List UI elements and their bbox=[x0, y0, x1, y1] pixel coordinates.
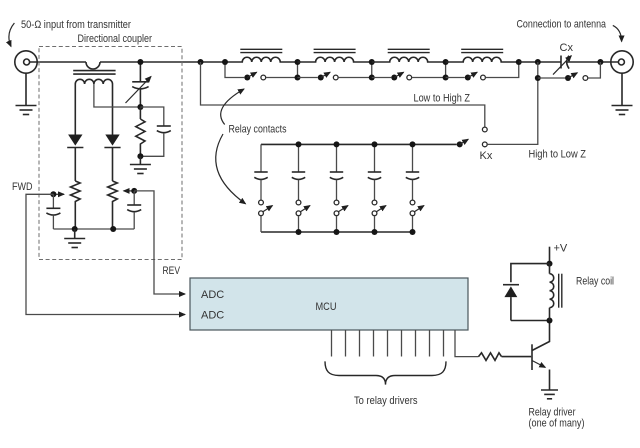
ground Q1 bbox=[541, 390, 558, 399]
capacitor Cx arrow bbox=[553, 56, 571, 75]
arrow to relay contact K1 bbox=[221, 89, 244, 125]
capacitor C5 bbox=[406, 144, 419, 200]
svg-text:+V: +V bbox=[554, 243, 568, 255]
potentiometer REV bbox=[108, 181, 118, 229]
svg-text:Cx: Cx bbox=[560, 42, 574, 54]
node L3-L4 bbox=[443, 59, 449, 65]
node Cx bypass top bbox=[535, 59, 541, 65]
svg-text:Low to High Z: Low to High Z bbox=[414, 93, 471, 105]
node C5 bottom bbox=[410, 229, 416, 235]
transistor Q1 bbox=[532, 321, 550, 391]
wire diode to coil bottom bbox=[511, 320, 550, 322]
inductor L3 bbox=[372, 57, 446, 62]
node L1-L2 bbox=[222, 59, 228, 65]
relay contact Cx bypass bbox=[538, 62, 601, 81]
node bus left bbox=[72, 226, 78, 232]
svg-text:(one of many): (one of many) bbox=[529, 418, 585, 430]
relay contact K6 bbox=[296, 200, 310, 232]
node C2 bottom bbox=[296, 229, 302, 235]
node C3 top bbox=[334, 141, 340, 147]
inductor L4 bbox=[446, 57, 519, 62]
CBANK bbox=[254, 78, 586, 235]
MAIN-LINE bbox=[9, 19, 225, 115]
arrow to J2 bbox=[613, 25, 622, 41]
diode D2 bbox=[104, 135, 120, 182]
wire FWD to ADC bbox=[26, 194, 185, 314]
node Cx bypass right bbox=[597, 59, 603, 65]
capacitor Cx variable plates bbox=[561, 56, 569, 69]
LBANK bbox=[201, 49, 522, 204]
wire output node down bbox=[537, 62, 539, 78]
DRIVER bbox=[479, 243, 615, 430]
svg-text:To relay drivers: To relay drivers bbox=[354, 395, 418, 407]
relay coil core bbox=[559, 274, 562, 308]
wire detector bottom bus bbox=[53, 228, 134, 230]
MCUBLK bbox=[190, 278, 479, 407]
inductor L1 core bbox=[240, 49, 282, 52]
svg-text:Directional coupler: Directional coupler bbox=[78, 33, 153, 45]
capacitor FWD bbox=[46, 194, 60, 229]
wire J1 to ground bbox=[25, 73, 27, 105]
transformer T1 core bbox=[73, 71, 115, 75]
node L2-L3 bbox=[369, 59, 375, 65]
inductor L3 core bbox=[388, 49, 430, 52]
+V supply bbox=[549, 247, 551, 264]
inductor L2 core bbox=[314, 49, 356, 52]
node C3 bottom bbox=[334, 229, 340, 235]
wire REV to ADC bbox=[134, 191, 185, 294]
relay contact K3 bbox=[372, 62, 446, 81]
wire node A down and across to Kx bbox=[201, 62, 485, 127]
diode flyback bbox=[503, 285, 519, 321]
node REV junction bbox=[131, 188, 137, 194]
relay Kx upper contact bbox=[482, 127, 487, 132]
inductor L1 bbox=[225, 57, 298, 62]
wire capacitor bank bottom bus bbox=[261, 231, 413, 233]
OUTPUT bbox=[517, 19, 634, 115]
potentiometer REV wiper arrow bbox=[124, 190, 135, 192]
svg-text:High to Low Z: High to Low Z bbox=[529, 149, 587, 161]
node C2 top bbox=[296, 141, 302, 147]
capacitor C1 bbox=[254, 144, 267, 200]
variable capacitor coupler arrow bbox=[126, 77, 152, 104]
svg-text:MCU: MCU bbox=[316, 301, 337, 313]
wire Cx to antenna connector bbox=[567, 61, 619, 63]
wire Kx lower contact to output node bbox=[487, 78, 538, 144]
capacitor C4 bbox=[368, 144, 381, 200]
capacitor C3 bbox=[330, 144, 343, 200]
node RC bottom bbox=[137, 153, 143, 159]
wire transformer to node A bbox=[100, 61, 225, 63]
wire main line J1 to transformer bbox=[30, 61, 86, 63]
ground detector bbox=[64, 229, 85, 248]
wire secondary center tap bbox=[94, 84, 140, 107]
relay contact K1 bbox=[225, 62, 298, 81]
transformer T1 secondary bbox=[75, 79, 112, 84]
relay contact K5 bbox=[259, 200, 273, 232]
transformer T1 primary loop bbox=[86, 62, 100, 69]
arrow to capacitor contact bbox=[216, 134, 246, 204]
wire J2 to ground bbox=[621, 73, 623, 105]
svg-text:Relay contacts: Relay contacts bbox=[229, 124, 287, 136]
diode D1 bbox=[67, 135, 83, 182]
svg-text:50-Ω input from transmitter: 50-Ω input from transmitter bbox=[21, 19, 131, 31]
wire secondary left end to D1 bbox=[74, 84, 76, 135]
relay Kx common bbox=[457, 141, 463, 147]
wire L4 node to Cx bbox=[519, 61, 561, 63]
node main-line tap bbox=[137, 59, 143, 65]
relay contact K2 bbox=[298, 62, 372, 81]
variable capacitor coupler plates bbox=[132, 82, 148, 107]
node A junction bbox=[198, 59, 204, 65]
svg-text:REV: REV bbox=[163, 265, 181, 277]
connector J1 transmitter input bbox=[15, 51, 37, 73]
node L4 out bbox=[516, 59, 522, 65]
relay contact K8 bbox=[372, 200, 386, 232]
potentiometer FWD wiper arrow bbox=[53, 193, 64, 195]
node coil top bbox=[547, 261, 553, 267]
inductor L2 bbox=[298, 57, 372, 62]
relay Kx lower contact bbox=[482, 142, 487, 147]
node FWD junction bbox=[50, 191, 56, 197]
arrow to J1 bbox=[9, 23, 15, 47]
node coil bottom bbox=[547, 318, 553, 324]
node bypass tee bbox=[535, 75, 541, 81]
capacitor REV bbox=[127, 191, 141, 229]
relay contact K4 bbox=[446, 62, 519, 81]
svg-text:ADC: ADC bbox=[201, 310, 224, 322]
node below variable capacitor bbox=[137, 104, 143, 110]
directional coupler dashed box bbox=[39, 47, 182, 260]
COUPLER bbox=[12, 33, 185, 315]
relay coil bbox=[550, 264, 554, 321]
brace to relay drivers bbox=[325, 361, 446, 384]
wire capacitor bank top bus bbox=[261, 143, 457, 145]
MCU U1 block bbox=[190, 278, 468, 330]
relay contact K9 bbox=[410, 200, 424, 232]
ground coupler RC bbox=[130, 156, 151, 173]
wire secondary right end to D2 bbox=[112, 84, 114, 135]
wire driver pin bbox=[455, 330, 479, 357]
svg-text:FWD: FWD bbox=[12, 181, 33, 193]
node C4 bottom bbox=[372, 229, 378, 235]
node bus right bbox=[110, 226, 116, 232]
resistor coupler bbox=[136, 107, 145, 156]
ground J2 bbox=[612, 106, 633, 115]
relay contact K7 bbox=[334, 200, 348, 232]
variable capacitor coupler: wire from main line bbox=[139, 62, 141, 82]
wire resistor to base bbox=[502, 356, 532, 358]
potentiometer FWD bbox=[71, 181, 81, 229]
inductor L4 core bbox=[461, 49, 503, 52]
node C4 top bbox=[372, 141, 378, 147]
wire coil top to diode bbox=[511, 264, 550, 283]
relay Kx arm arrow bbox=[460, 139, 469, 144]
svg-text:Kx: Kx bbox=[480, 150, 493, 162]
capacitor coupler bbox=[140, 107, 170, 156]
ground J1 bbox=[16, 106, 37, 115]
svg-text:Relay coil: Relay coil bbox=[576, 276, 614, 288]
resistor base bbox=[479, 353, 502, 361]
capacitor C2 bbox=[292, 144, 305, 200]
MCU pins bbox=[332, 330, 444, 357]
svg-text:ADC: ADC bbox=[201, 289, 224, 301]
node C5 top bbox=[410, 141, 416, 147]
svg-text:Connection to antenna: Connection to antenna bbox=[517, 19, 607, 31]
connector J2 antenna bbox=[611, 51, 633, 73]
